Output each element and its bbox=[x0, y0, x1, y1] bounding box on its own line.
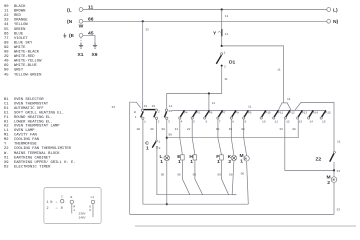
svg-text:00: 00 bbox=[193, 174, 197, 177]
svg-text:11: 11 bbox=[287, 98, 291, 101]
svg-text:11: 11 bbox=[88, 5, 93, 11]
mains terminal block W: N terminal bbox=[67, 19, 83, 25]
node junction on N line bbox=[142, 20, 144, 22]
svg-text:Y: Y bbox=[4, 143, 7, 147]
svg-text:12: 12 bbox=[286, 120, 290, 123]
selector B1 contact P10 bbox=[260, 110, 271, 123]
wire 00 from K2 bbox=[229, 161, 234, 195]
svg-text:99: 99 bbox=[216, 128, 220, 131]
wire bus feed drop bbox=[209, 94, 216, 111]
wire C1 output to inner rail bbox=[157, 148, 237, 194]
svg-text:X9: X9 bbox=[92, 52, 98, 58]
svg-text:CAVITY FAN: CAVITY FAN bbox=[14, 134, 37, 138]
svg-text:11: 11 bbox=[4, 10, 9, 14]
svg-text:P8: P8 bbox=[236, 112, 240, 115]
svg-text:5: 5 bbox=[193, 120, 195, 123]
wire 33 from M2 to bottom rail bbox=[334, 182, 340, 214]
svg-text:LOWER HEATING EL.: LOWER HEATING EL. bbox=[14, 120, 53, 124]
svg-text:33: 33 bbox=[337, 209, 341, 212]
svg-text:1 N: 1 N bbox=[47, 201, 53, 205]
heating element E1 bbox=[177, 154, 184, 165]
selector B1 contact P3 bbox=[164, 109, 172, 123]
thermolimiter Z2 bbox=[316, 151, 336, 170]
wire L line 11 bbox=[83, 5, 327, 11]
svg-text:P3: P3 bbox=[169, 110, 173, 113]
wire N line 66 bbox=[83, 17, 327, 23]
node junction on L line bbox=[221, 8, 223, 10]
wire branch to bus feed right bbox=[222, 46, 284, 103]
svg-text:11: 11 bbox=[275, 120, 279, 123]
selector B1 contact P9 bbox=[243, 110, 252, 123]
svg-text:4: 4 bbox=[181, 120, 183, 123]
automatic off D1 bbox=[216, 51, 235, 68]
svg-text:OVEN LAMP: OVEN LAMP bbox=[14, 129, 35, 133]
timer lamp L1 bbox=[89, 196, 94, 217]
svg-text:P11: P11 bbox=[278, 112, 283, 115]
ground X9 bbox=[92, 43, 98, 58]
svg-text:00: 00 bbox=[241, 173, 245, 176]
svg-text:6: 6 bbox=[206, 120, 208, 123]
heating element F1 bbox=[216, 154, 223, 165]
svg-text:33: 33 bbox=[112, 106, 116, 109]
node L) right bbox=[327, 7, 338, 13]
selector B1 contact P13 bbox=[297, 110, 308, 123]
timer terminal B bbox=[70, 196, 75, 213]
selector B1 contact P14 bbox=[308, 110, 319, 123]
svg-text:M1: M1 bbox=[4, 134, 9, 138]
svg-text:1: 1 bbox=[240, 158, 243, 164]
svg-text:L1: L1 bbox=[4, 129, 9, 133]
svg-text:GREEN: GREEN bbox=[14, 28, 25, 32]
svg-text:99: 99 bbox=[4, 46, 9, 50]
svg-text:M: M bbox=[240, 153, 244, 159]
component legend bbox=[4, 98, 76, 170]
svg-text:29: 29 bbox=[4, 55, 9, 59]
svg-text:11: 11 bbox=[337, 141, 341, 144]
svg-text:GREY: GREY bbox=[14, 69, 24, 73]
svg-text:P15: P15 bbox=[325, 112, 330, 115]
wire from M1 to mid rail bbox=[241, 161, 249, 204]
svg-text:EARTHING CABINET: EARTHING CABINET bbox=[14, 157, 51, 161]
wire 66 from terminal 8 bbox=[229, 119, 234, 155]
svg-text:00: 00 bbox=[217, 174, 221, 177]
svg-text:49: 49 bbox=[4, 60, 9, 64]
svg-text:BLUE: BLUE bbox=[14, 32, 24, 36]
svg-text:C1: C1 bbox=[4, 102, 9, 106]
svg-text:2: 2 bbox=[158, 110, 160, 113]
selector B1 contact P6 bbox=[204, 110, 213, 123]
svg-text:240V: 240V bbox=[79, 216, 86, 219]
node junction C1 branch bbox=[166, 137, 168, 139]
node junction D1 branch bbox=[221, 45, 223, 47]
svg-text:00: 00 bbox=[150, 128, 154, 131]
svg-text:COOLING FAN THERMOLIMITER: COOLING FAN THERMOLIMITER bbox=[14, 147, 72, 151]
svg-text:11: 11 bbox=[224, 78, 228, 81]
svg-text:P10: P10 bbox=[265, 112, 270, 115]
svg-text:ORANGE: ORANGE bbox=[14, 19, 28, 23]
wire bus line bbox=[172, 109, 326, 111]
svg-text:BLACK: BLACK bbox=[14, 5, 26, 9]
svg-text:22: 22 bbox=[187, 128, 191, 131]
svg-text:P9: P9 bbox=[248, 112, 252, 115]
svg-text:1: 1 bbox=[135, 116, 137, 119]
wire 00 from E1 diagonal bbox=[177, 160, 190, 195]
svg-text:SOFT GRILL HEATING EL.: SOFT GRILL HEATING EL. bbox=[14, 111, 64, 115]
svg-text:∼: ∼ bbox=[56, 207, 58, 211]
svg-text:MAINS TERMINAL BLOCK: MAINS TERMINAL BLOCK bbox=[14, 152, 60, 156]
svg-text:11: 11 bbox=[225, 33, 229, 36]
svg-text:(E: (E bbox=[69, 33, 75, 39]
svg-text:2: 2 bbox=[158, 120, 160, 123]
svg-text:00: 00 bbox=[161, 174, 165, 177]
svg-text:X9: X9 bbox=[4, 161, 9, 165]
wire 33 drop from N bbox=[143, 21, 149, 108]
svg-text:B: B bbox=[134, 111, 136, 114]
svg-text:WHITE-YELLOW: WHITE-YELLOW bbox=[14, 60, 42, 64]
svg-text:OVEN THERMOSTAT LAMP: OVEN THERMOSTAT LAMP bbox=[14, 125, 60, 129]
node junction Z2 out bbox=[333, 169, 340, 173]
svg-text:11: 11 bbox=[212, 102, 216, 105]
oven thermostat C1 bbox=[145, 140, 160, 152]
svg-text:W: W bbox=[79, 24, 84, 30]
svg-text:D1: D1 bbox=[4, 107, 9, 111]
svg-text:P6: P6 bbox=[209, 112, 213, 115]
wire inner rail end bbox=[232, 194, 236, 196]
wire earth 45 bbox=[83, 31, 95, 44]
svg-text:33: 33 bbox=[152, 105, 156, 108]
svg-text:1: 1 bbox=[158, 140, 160, 143]
wire 33 riser to selector B bbox=[112, 102, 141, 214]
svg-text:(N: (N bbox=[67, 19, 73, 25]
svg-text:C: C bbox=[61, 196, 63, 199]
node N) right bbox=[327, 19, 339, 25]
svg-text:90: 90 bbox=[4, 69, 9, 73]
wire 00 from terminal 1 bbox=[137, 119, 143, 204]
svg-text:00: 00 bbox=[177, 174, 181, 177]
wire 00 from terminal 9 bbox=[241, 119, 246, 155]
svg-text:X1: X1 bbox=[4, 157, 9, 161]
svg-text:L1: L1 bbox=[91, 196, 95, 199]
wire dashed to X1 bbox=[80, 38, 82, 44]
svg-text:8: 8 bbox=[232, 120, 234, 123]
svg-text:90: 90 bbox=[162, 128, 166, 131]
wire 22 from terminal 5 bbox=[187, 119, 195, 155]
timer terminal 2 bbox=[47, 207, 63, 211]
svg-text:0: 0 bbox=[61, 207, 63, 211]
svg-text:K: K bbox=[228, 154, 232, 160]
svg-text:230V: 230V bbox=[79, 213, 86, 216]
wire colour legend bbox=[4, 5, 42, 77]
svg-text:∼: ∼ bbox=[56, 201, 58, 205]
svg-text:F1: F1 bbox=[4, 116, 9, 120]
svg-text:BROWN: BROWN bbox=[14, 10, 25, 14]
svg-text:B1: B1 bbox=[4, 98, 9, 102]
thermostat lamp K2 bbox=[228, 154, 237, 165]
wire 11 drop from L bbox=[222, 10, 229, 28]
wire D1 output bbox=[167, 67, 228, 109]
wire bottom rail bbox=[130, 213, 334, 215]
wire 33 from terminal 12 bbox=[279, 119, 333, 170]
svg-text:P4: P4 bbox=[184, 112, 188, 115]
svg-text:90: 90 bbox=[292, 128, 296, 131]
svg-text:BLUE SKY: BLUE SKY bbox=[14, 41, 33, 45]
svg-text:00: 00 bbox=[137, 128, 141, 131]
wire branch to Z2 loop bbox=[167, 119, 298, 137]
svg-text:13: 13 bbox=[144, 105, 148, 108]
svg-text:B: B bbox=[71, 196, 73, 199]
svg-text:45: 45 bbox=[4, 73, 9, 77]
svg-text:11: 11 bbox=[248, 106, 252, 109]
selector B1 contact P5 bbox=[191, 110, 200, 123]
svg-text:15: 15 bbox=[322, 120, 326, 123]
svg-text:Y: Y bbox=[213, 31, 217, 37]
svg-text:RED: RED bbox=[14, 14, 22, 18]
svg-text:WHITE-BLACK: WHITE-BLACK bbox=[14, 51, 40, 55]
svg-text:OVEN THERMOSTAT: OVEN THERMOSTAT bbox=[14, 102, 49, 106]
svg-text:N): N) bbox=[333, 19, 339, 25]
selector B1 contact P11 bbox=[273, 110, 284, 123]
svg-text:P14: P14 bbox=[313, 112, 318, 115]
svg-text:44: 44 bbox=[175, 128, 179, 131]
svg-text:66: 66 bbox=[88, 17, 94, 23]
svg-text:10: 10 bbox=[262, 120, 266, 123]
svg-text:00: 00 bbox=[4, 5, 9, 9]
wire mid rail bbox=[143, 203, 248, 205]
svg-text:L): L) bbox=[333, 7, 338, 13]
svg-text:9: 9 bbox=[245, 120, 247, 123]
svg-text:00: 00 bbox=[229, 174, 233, 177]
svg-text:33: 33 bbox=[4, 19, 9, 23]
mains terminal block W: E terminal bbox=[63, 33, 83, 39]
svg-text:1: 1 bbox=[73, 209, 75, 212]
svg-text:W.: W. bbox=[4, 152, 9, 156]
svg-text:77: 77 bbox=[4, 37, 9, 41]
svg-text:C: C bbox=[145, 140, 149, 146]
heating element H1 bbox=[189, 154, 196, 165]
svg-text:D1: D1 bbox=[229, 60, 236, 66]
svg-text:E1: E1 bbox=[4, 111, 9, 115]
svg-text:P5: P5 bbox=[196, 112, 200, 115]
svg-text:D2: D2 bbox=[4, 166, 9, 170]
svg-text:11: 11 bbox=[277, 69, 281, 72]
svg-text:1: 1 bbox=[190, 159, 193, 165]
oven lamp L1 bbox=[160, 154, 170, 165]
node junction bus feed bbox=[208, 92, 210, 94]
wire 90 from terminal 3 bbox=[162, 119, 167, 155]
svg-text:ROUND HEATING EL.: ROUND HEATING EL. bbox=[14, 116, 53, 120]
svg-text:11: 11 bbox=[225, 15, 229, 18]
svg-text:2: 2 bbox=[47, 207, 49, 211]
svg-text:2: 2 bbox=[159, 147, 161, 150]
selector B1 contact P7 bbox=[217, 110, 226, 123]
svg-text:Z2: Z2 bbox=[316, 157, 322, 163]
svg-text:P13: P13 bbox=[302, 112, 307, 115]
electronic timer D2 box bbox=[44, 188, 101, 224]
timer terminal 1N bbox=[47, 196, 64, 206]
cavity fan M1 bbox=[240, 153, 250, 164]
wire 44 from terminal 4 bbox=[175, 119, 183, 155]
svg-text:7: 7 bbox=[219, 120, 221, 123]
selector B1 pivot B bbox=[134, 111, 137, 119]
wire 99 from terminal 7 bbox=[216, 119, 222, 155]
selector B1 contact P8 bbox=[230, 110, 239, 123]
svg-text:YELLOW: YELLOW bbox=[14, 23, 28, 27]
svg-text:11: 11 bbox=[169, 105, 173, 108]
svg-text:14: 14 bbox=[309, 120, 313, 123]
wire rise to Z2 line bbox=[295, 103, 341, 152]
svg-text:AUTOMATIC OFF: AUTOMATIC OFF bbox=[14, 107, 44, 111]
svg-text:55: 55 bbox=[4, 28, 9, 32]
svg-text:45: 45 bbox=[88, 31, 94, 37]
svg-text:0: 0 bbox=[89, 209, 91, 212]
svg-text:M: M bbox=[327, 175, 331, 181]
svg-text:M2: M2 bbox=[4, 138, 9, 142]
wire bump feed at P12 bbox=[278, 98, 291, 110]
svg-text:3: 3 bbox=[168, 120, 170, 123]
svg-text:P12: P12 bbox=[290, 112, 295, 115]
svg-text:EARTHING UPPER/ GRILL H. E.: EARTHING UPPER/ GRILL H. E. bbox=[14, 160, 76, 165]
svg-text:90: 90 bbox=[168, 133, 172, 136]
svg-text:44: 44 bbox=[4, 23, 9, 27]
svg-text:P7: P7 bbox=[222, 112, 226, 115]
wire 00 from terminal 2 to C1 bbox=[150, 119, 156, 140]
wire 00 from H1 diagonal bbox=[193, 160, 203, 195]
svg-text:33: 33 bbox=[337, 170, 341, 173]
svg-text:H1: H1 bbox=[4, 120, 9, 124]
separator line bbox=[135, 225, 356, 227]
svg-text:1: 1 bbox=[144, 120, 146, 123]
svg-text:00: 00 bbox=[241, 128, 245, 131]
svg-text:Z2: Z2 bbox=[4, 147, 9, 151]
svg-text:33: 33 bbox=[145, 29, 149, 32]
svg-text:K2: K2 bbox=[4, 125, 9, 129]
selector B1 contact P15 bbox=[320, 110, 331, 123]
wire 00 from L1 bbox=[161, 161, 167, 205]
svg-text:THERMOFUSE: THERMOFUSE bbox=[14, 143, 38, 147]
svg-text:VIOLET: VIOLET bbox=[14, 37, 28, 41]
svg-text:F: F bbox=[216, 154, 219, 160]
svg-text:2: 2 bbox=[224, 66, 226, 69]
svg-text:2: 2 bbox=[228, 159, 231, 165]
svg-text:69: 69 bbox=[4, 64, 9, 68]
node junction L1 on mid rail bbox=[166, 203, 168, 205]
svg-text:WHITE: WHITE bbox=[14, 46, 26, 50]
svg-text:66: 66 bbox=[229, 128, 233, 131]
svg-text:1: 1 bbox=[146, 146, 149, 152]
svg-text:COOLING FAN: COOLING FAN bbox=[14, 138, 39, 142]
svg-text:WHITE-RED: WHITE-RED bbox=[14, 55, 35, 59]
svg-text:2: 2 bbox=[327, 180, 330, 186]
svg-text:M: M bbox=[245, 158, 247, 162]
svg-text:22: 22 bbox=[4, 14, 9, 18]
svg-text:OVEN SELECTOR: OVEN SELECTOR bbox=[14, 98, 44, 102]
svg-text:L: L bbox=[160, 154, 163, 160]
timer voltage label bbox=[79, 213, 86, 220]
svg-text:1: 1 bbox=[160, 159, 163, 165]
svg-text:88: 88 bbox=[4, 41, 9, 45]
svg-text:1: 1 bbox=[224, 51, 226, 54]
svg-text:33: 33 bbox=[279, 128, 283, 131]
thermofuse Y bbox=[213, 28, 229, 46]
cooling fan M2 bbox=[327, 170, 337, 185]
mains terminal block W: L terminal bbox=[67, 7, 83, 13]
svg-text:13: 13 bbox=[299, 120, 303, 123]
selector B1 contact P4 bbox=[179, 110, 188, 123]
selector B1 contact P12 bbox=[284, 110, 295, 123]
svg-text:WHITE-BLUE: WHITE-BLUE bbox=[14, 64, 38, 68]
ground X1 bbox=[78, 43, 84, 58]
svg-text:09: 09 bbox=[4, 51, 9, 55]
svg-text:X1: X1 bbox=[78, 52, 84, 58]
svg-text:YELLOW-GREEN: YELLOW-GREEN bbox=[14, 73, 41, 77]
selector B1 contact pair 13/33 bbox=[141, 105, 160, 123]
svg-text:ELECTRONIC TIMER: ELECTRONIC TIMER bbox=[14, 166, 51, 170]
wire 00 from F1 diagonal bbox=[217, 160, 228, 195]
svg-text:(L: (L bbox=[67, 7, 72, 13]
svg-text:66: 66 bbox=[4, 32, 9, 36]
